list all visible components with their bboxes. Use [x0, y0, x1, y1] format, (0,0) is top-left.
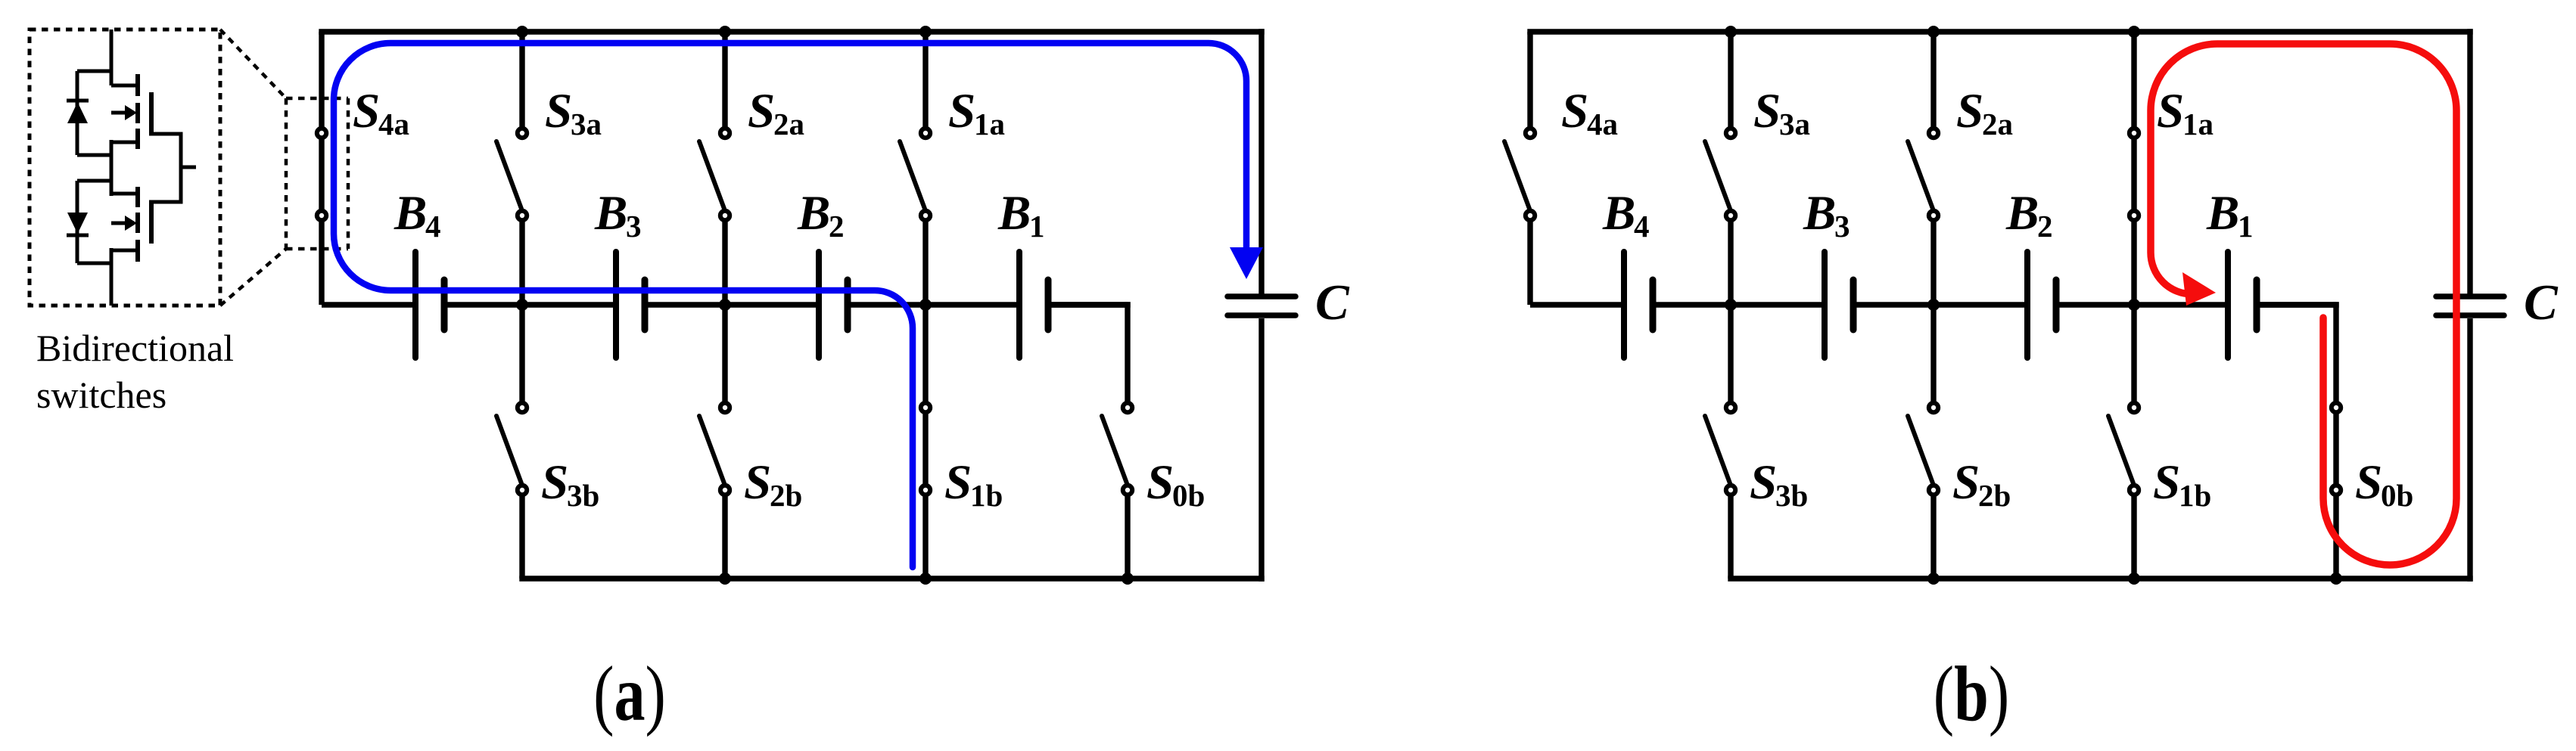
svg-text:C: C [1315, 275, 1350, 331]
label S2a (a) [748, 84, 804, 141]
svg-text:1: 1 [1029, 209, 1045, 244]
label B1 (a) [997, 186, 1045, 244]
switch S4a (b) [1504, 32, 1535, 305]
svg-text:2: 2 [829, 209, 845, 244]
wire: inset common source node [110, 140, 114, 196]
label B2 (b) [2005, 186, 2053, 244]
svg-text:S: S [353, 84, 380, 138]
caption (b) [1934, 650, 2009, 737]
label: Bidirectional switches [36, 327, 234, 416]
svg-text:B: B [1602, 186, 1635, 241]
svg-text:B: B [1803, 186, 1836, 241]
wire: inset drain lead top [110, 29, 114, 85]
wire: top rail (a) [319, 29, 1264, 34]
svg-text:2a: 2a [773, 107, 804, 141]
svg-text:3b: 3b [1775, 478, 1808, 513]
svg-text:S: S [2157, 84, 2184, 138]
battery B1 (b) [2228, 252, 2257, 358]
svg-text:0b: 0b [1172, 478, 1205, 513]
label B1 (b) [2206, 186, 2254, 244]
wire: right edge upper (a) [1258, 29, 1264, 294]
svg-text:S: S [744, 455, 771, 510]
svg-text:B: B [797, 186, 830, 241]
label S3a (a) [545, 84, 602, 141]
inset dashed box (bidirectional switch detail) [30, 29, 220, 306]
label S1a (b) [2157, 84, 2214, 141]
svg-text:S: S [748, 84, 775, 138]
wire: top rail (b) [1527, 29, 2472, 34]
battery B4 (b) [1624, 252, 1653, 358]
switch S1a (b) [2130, 32, 2139, 403]
svg-text:S: S [948, 84, 975, 138]
battery B3 (b) [1825, 252, 1853, 358]
wire: B1 to S0b (b) [2260, 302, 2339, 307]
svg-text:S: S [1956, 84, 1983, 138]
svg-text:(a): (a) [593, 650, 666, 737]
label S2b (a) [744, 455, 802, 513]
switch S1b (b) [2108, 403, 2139, 579]
svg-text:S: S [1146, 455, 1174, 510]
svg-text:1a: 1a [974, 107, 1005, 141]
label S1b (b) [2153, 455, 2211, 513]
battery B2 (b) [2027, 252, 2056, 358]
battery B2 (a) [819, 252, 848, 358]
svg-text:4: 4 [1634, 209, 1650, 244]
arrowhead (red) circuit (b) [2182, 272, 2216, 306]
battery B1 (a) [1019, 252, 1048, 358]
capacitor C (b) [2436, 296, 2504, 315]
svg-text:4a: 4a [1587, 107, 1618, 141]
junction dots battery rail (b) [1725, 299, 2140, 311]
label S0b (a) [1146, 455, 1205, 513]
switch S1b (a) [921, 403, 930, 579]
svg-text:0b: 0b [2381, 478, 2413, 513]
label S4a (b) [1561, 84, 1618, 141]
svg-text:S: S [1952, 455, 1980, 510]
junction dots top rail (b) [1725, 26, 2140, 38]
capacitor C (a) [1227, 296, 1296, 315]
arrowhead (blue) circuit (a) [1230, 247, 1263, 279]
svg-text:2: 2 [2037, 209, 2053, 244]
MOSFET Q2 (lower) [111, 167, 181, 262]
svg-text:3b: 3b [567, 478, 599, 513]
switch S0b (b) [2332, 302, 2341, 579]
label S2b (b) [1952, 455, 2011, 513]
svg-text:3: 3 [626, 209, 642, 244]
svg-text:B: B [394, 186, 427, 241]
wire: battery string rail (b) [1530, 302, 2336, 307]
label B4 (b) [1602, 186, 1650, 244]
svg-text:4: 4 [425, 209, 441, 244]
switch S2a (a) [699, 32, 730, 403]
current path (red) circuit (b) [2151, 44, 2456, 565]
svg-text:S: S [2355, 455, 2382, 510]
svg-text:(b): (b) [1934, 650, 2009, 737]
junction dots battery rail (a) [516, 299, 932, 311]
switch S2a (b) [1908, 32, 1938, 403]
label S3b (b) [1750, 455, 1808, 513]
switch S3a (b) [1705, 32, 1735, 403]
body diode D2 (lower) [67, 181, 111, 263]
label S3a (b) [1753, 84, 1810, 141]
body diode D1 (upper) [67, 71, 111, 155]
svg-text:3a: 3a [1779, 107, 1810, 141]
wire: battery string rail (a) [322, 302, 1128, 307]
label S3b (a) [541, 455, 599, 513]
switch S1a (a) [900, 32, 930, 403]
svg-text:B: B [997, 186, 1031, 241]
svg-text:2b: 2b [1978, 478, 2011, 513]
label B2 (a) [797, 186, 845, 244]
wire: inset gate stub [181, 166, 196, 169]
svg-text:B: B [594, 186, 627, 241]
label B3 (a) [594, 186, 642, 244]
svg-text:B: B [2206, 186, 2239, 241]
switch S3b (b) [1705, 403, 1735, 579]
label S2a (b) [1956, 84, 2013, 141]
junction dots top rail (a) [516, 26, 932, 38]
wire: right edge lower (a) [1258, 318, 1264, 582]
svg-text:S: S [541, 455, 568, 510]
svg-text:1b: 1b [970, 478, 1003, 513]
wire: B1 to S0b (a) [1051, 302, 1131, 307]
label S1a (a) [948, 84, 1005, 141]
svg-text:2b: 2b [770, 478, 802, 513]
dashed leader lines to S4a [220, 29, 348, 306]
switch S2b (b) [1908, 403, 1938, 579]
wire: right edge lower (b) [2467, 318, 2472, 582]
svg-text:S: S [2153, 455, 2180, 510]
svg-text:1: 1 [2238, 209, 2254, 244]
svg-text:1b: 1b [2179, 478, 2211, 513]
svg-text:2a: 2a [1982, 107, 2013, 141]
wire: right edge upper (b) [2467, 29, 2472, 294]
svg-text:3: 3 [1834, 209, 1850, 244]
wire: inset drain lead bottom [110, 248, 114, 306]
svg-text:S: S [1750, 455, 1777, 510]
switch S3b (a) [496, 403, 527, 579]
wire: bottom rail (a) [519, 576, 1264, 581]
svg-text:3a: 3a [571, 107, 602, 141]
svg-text:Bidirectional: Bidirectional [36, 327, 234, 369]
battery B4 (a) [415, 252, 444, 358]
svg-text:1a: 1a [2182, 107, 2214, 141]
label S0b (b) [2355, 455, 2413, 513]
svg-text:C: C [2524, 275, 2559, 331]
label S1b (a) [944, 455, 1003, 513]
svg-text:4a: 4a [378, 107, 409, 141]
junction dots bottom rail (b) [1927, 573, 2342, 585]
label B4 (a) [394, 186, 441, 244]
label B3 (b) [1803, 186, 1850, 244]
MOSFET Q1 (upper) [111, 74, 181, 167]
battery B3 (a) [616, 252, 645, 358]
switch S0b (a) [1102, 302, 1132, 579]
switch S3a (a) [496, 32, 527, 403]
svg-text:switches: switches [36, 374, 166, 416]
junction dots bottom rail (a) [719, 573, 1134, 585]
svg-text:B: B [2005, 186, 2039, 241]
switch S4a (a) [317, 32, 326, 305]
svg-text:S: S [1561, 84, 1588, 138]
switch S2b (a) [699, 403, 730, 579]
current path (blue) circuit (a) [334, 43, 1246, 567]
label S4a (a) [353, 84, 409, 141]
wire: bottom rail (b) [1728, 576, 2472, 581]
caption (a) [593, 650, 666, 737]
svg-text:S: S [545, 84, 572, 138]
svg-text:S: S [944, 455, 972, 510]
svg-text:S: S [1753, 84, 1781, 138]
